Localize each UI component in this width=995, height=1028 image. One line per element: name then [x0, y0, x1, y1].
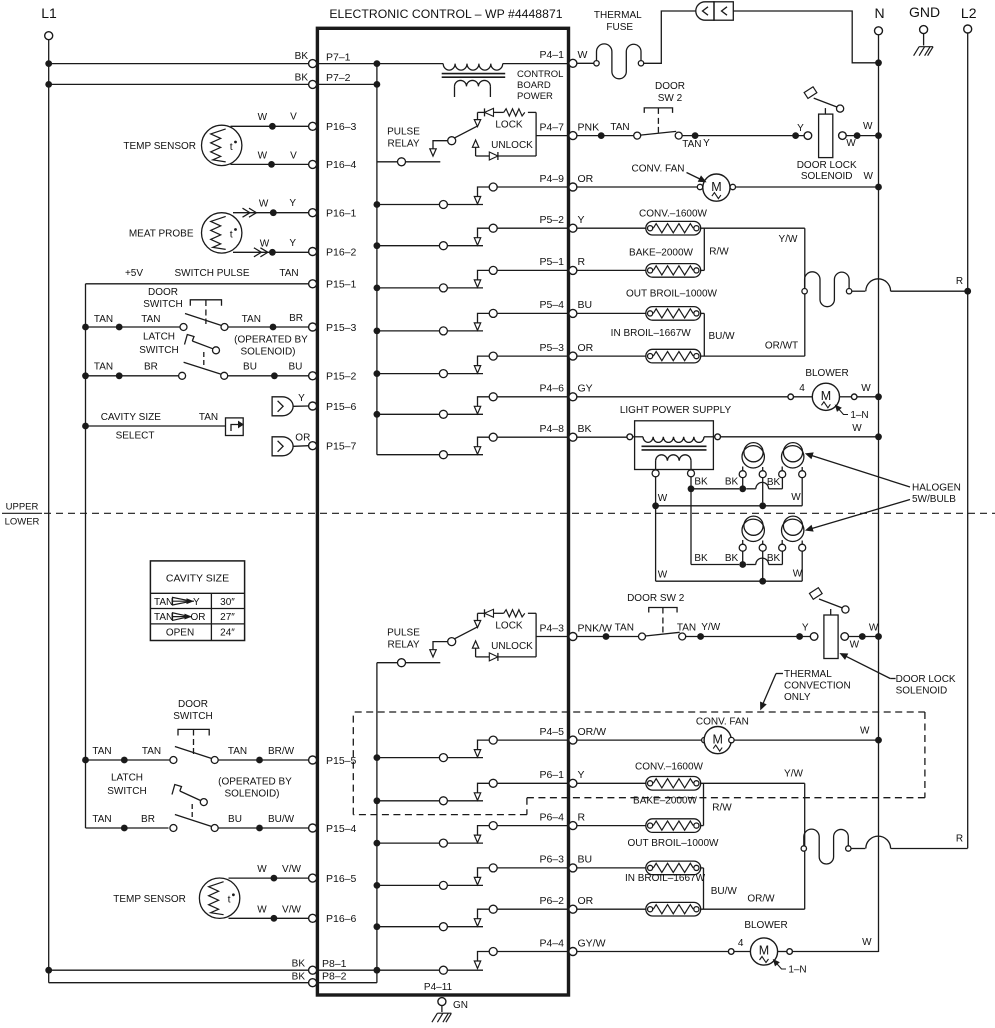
svg-text:27″: 27″ — [220, 612, 235, 623]
svg-text:OR/W: OR/W — [747, 894, 775, 905]
svg-text:t: t — [230, 228, 233, 240]
svg-text:GY: GY — [578, 383, 593, 395]
svg-text:HALOGEN: HALOGEN — [912, 483, 961, 494]
svg-text:Y: Y — [703, 138, 710, 149]
svg-text:POWER: POWER — [517, 91, 553, 102]
svg-text:(OPERATED BY: (OPERATED BY — [218, 777, 292, 788]
svg-text:W: W — [861, 383, 871, 394]
svg-text:BK: BK — [767, 553, 781, 564]
svg-text:TAN: TAN — [141, 314, 160, 325]
svg-text:TAN: TAN — [242, 314, 261, 325]
svg-text:P5–2: P5–2 — [539, 214, 564, 226]
svg-text:BK: BK — [767, 477, 781, 488]
svg-text:CONTROL: CONTROL — [517, 69, 563, 80]
svg-text:M: M — [711, 180, 721, 194]
svg-text:TAN: TAN — [94, 362, 113, 373]
svg-text:W: W — [257, 905, 267, 916]
svg-text:Y: Y — [578, 214, 585, 226]
svg-text:OR: OR — [578, 342, 594, 354]
svg-text:Y: Y — [298, 393, 305, 404]
svg-text:W: W — [793, 569, 803, 580]
svg-text:TEMP SENSOR: TEMP SENSOR — [113, 894, 186, 905]
svg-text:P16–4: P16–4 — [326, 159, 357, 171]
svg-text:BK: BK — [292, 959, 306, 970]
svg-text:W: W — [658, 570, 668, 581]
svg-text:P7–1: P7–1 — [326, 51, 351, 63]
svg-text:CAVITY SIZE: CAVITY SIZE — [101, 412, 162, 423]
svg-text:CONV.–1600W: CONV.–1600W — [639, 209, 708, 220]
svg-text:GN: GN — [453, 1000, 468, 1011]
svg-text:BR/W: BR/W — [268, 746, 295, 757]
svg-text:PULSE: PULSE — [387, 628, 420, 639]
svg-text:V/W: V/W — [282, 905, 301, 916]
svg-text:OR: OR — [191, 612, 206, 623]
svg-text:5W/BULB: 5W/BULB — [912, 494, 956, 505]
svg-text:TAN: TAN — [92, 814, 111, 825]
svg-text:Y: Y — [193, 597, 200, 608]
svg-text:R/W: R/W — [712, 803, 732, 814]
svg-text:W: W — [791, 492, 801, 503]
svg-text:24″: 24″ — [220, 628, 235, 639]
svg-text:P6–3: P6–3 — [539, 854, 564, 866]
svg-text:R: R — [578, 256, 586, 268]
svg-text:P16–6: P16–6 — [326, 913, 357, 925]
svg-text:ONLY: ONLY — [784, 692, 811, 703]
svg-text:R/W: R/W — [709, 247, 729, 258]
svg-text:P16–2: P16–2 — [326, 246, 357, 258]
svg-text:GND: GND — [909, 4, 940, 20]
svg-text:OR: OR — [578, 895, 594, 907]
svg-text:M: M — [712, 732, 722, 746]
svg-text:TAN: TAN — [610, 122, 629, 133]
svg-text:LOCK: LOCK — [495, 620, 523, 631]
svg-text:OR: OR — [578, 173, 594, 185]
svg-text:BU: BU — [243, 362, 257, 373]
svg-text:4: 4 — [799, 383, 805, 394]
svg-text:TAN: TAN — [279, 268, 298, 279]
svg-text:P8–2: P8–2 — [322, 971, 347, 983]
svg-text:M: M — [821, 389, 831, 403]
svg-text:P15–3: P15–3 — [326, 322, 357, 334]
svg-text:LATCH: LATCH — [111, 773, 143, 784]
svg-text:+5V: +5V — [125, 268, 143, 279]
svg-text:Y: Y — [578, 769, 585, 781]
svg-text:THERMAL: THERMAL — [784, 669, 832, 680]
svg-text:UPPER: UPPER — [6, 502, 39, 513]
svg-text:DOOR: DOOR — [148, 287, 178, 298]
svg-text:P4–5: P4–5 — [539, 726, 564, 738]
svg-text:BU: BU — [228, 814, 242, 825]
svg-text:LATCH: LATCH — [143, 332, 175, 343]
svg-text:BR: BR — [144, 362, 158, 373]
svg-text:BU: BU — [578, 854, 593, 866]
svg-text:N: N — [874, 5, 884, 21]
svg-text:W: W — [850, 640, 860, 651]
svg-text:LIGHT POWER SUPPLY: LIGHT POWER SUPPLY — [620, 405, 732, 416]
svg-text:W: W — [862, 937, 872, 948]
svg-text:TAN: TAN — [682, 139, 701, 150]
svg-text:TAN: TAN — [154, 612, 173, 623]
svg-text:(OPERATED BY: (OPERATED BY — [234, 335, 308, 346]
svg-text:P4–9: P4–9 — [539, 173, 564, 185]
svg-text:Y: Y — [797, 123, 804, 134]
svg-text:BK: BK — [578, 423, 592, 435]
svg-text:BR: BR — [289, 313, 303, 324]
svg-text:P4–4: P4–4 — [539, 937, 564, 949]
svg-text:Y: Y — [289, 198, 296, 209]
svg-text:DOOR: DOOR — [655, 81, 685, 92]
svg-text:t: t — [228, 894, 231, 906]
svg-text:BK: BK — [694, 553, 708, 564]
svg-text:IN BROIL–1667W: IN BROIL–1667W — [625, 873, 706, 884]
svg-text:t: t — [230, 141, 233, 153]
svg-text:Y/W: Y/W — [784, 769, 803, 780]
svg-text:OR/WT: OR/WT — [765, 341, 798, 352]
svg-text:SWITCH PULSE: SWITCH PULSE — [174, 268, 249, 279]
svg-text:LOWER: LOWER — [5, 517, 40, 528]
svg-text:RELAY: RELAY — [387, 640, 419, 651]
svg-text:P4–7: P4–7 — [539, 121, 564, 133]
svg-text:W: W — [860, 726, 870, 737]
svg-text:P15–1: P15–1 — [326, 279, 357, 291]
svg-text:CONV.–1600W: CONV.–1600W — [635, 762, 704, 773]
svg-text:P4–6: P4–6 — [539, 383, 564, 395]
svg-text:L1: L1 — [41, 5, 57, 21]
svg-text:BLOWER: BLOWER — [744, 920, 787, 931]
svg-text:1–N: 1–N — [788, 965, 806, 976]
svg-text:P15–4: P15–4 — [326, 823, 357, 835]
svg-text:TAN: TAN — [199, 412, 218, 423]
svg-text:TAN: TAN — [615, 623, 634, 634]
svg-text:V: V — [290, 151, 297, 162]
svg-text:ELECTRONIC CONTROL – WP #44488: ELECTRONIC CONTROL – WP #4448871 — [329, 7, 562, 21]
svg-text:BK: BK — [725, 553, 739, 564]
svg-text:DOOR: DOOR — [178, 699, 208, 710]
svg-text:PULSE: PULSE — [387, 127, 420, 138]
svg-text:LOCK: LOCK — [495, 119, 523, 130]
svg-text:BK: BK — [295, 73, 309, 84]
svg-text:P5–4: P5–4 — [539, 299, 564, 311]
svg-text:Y: Y — [802, 623, 809, 634]
svg-text:UNLOCK: UNLOCK — [491, 641, 533, 652]
svg-text:BU/W: BU/W — [268, 814, 295, 825]
svg-text:W: W — [846, 138, 856, 149]
svg-text:W: W — [658, 493, 668, 504]
svg-text:W: W — [258, 112, 268, 123]
svg-text:DOOR LOCK: DOOR LOCK — [896, 674, 956, 685]
svg-text:R: R — [956, 834, 963, 845]
svg-text:GY/W: GY/W — [578, 937, 606, 949]
svg-text:30″: 30″ — [220, 597, 235, 608]
svg-text:OUT BROIL–1000W: OUT BROIL–1000W — [628, 838, 720, 849]
svg-text:PNK/W: PNK/W — [578, 622, 613, 634]
svg-text:FUSE: FUSE — [606, 22, 633, 33]
svg-text:P4–1: P4–1 — [539, 49, 564, 61]
svg-text:W: W — [863, 171, 873, 182]
svg-text:MEAT PROBE: MEAT PROBE — [129, 229, 194, 240]
svg-text:CAVITY SIZE: CAVITY SIZE — [166, 573, 229, 585]
svg-text:UNLOCK: UNLOCK — [491, 140, 533, 151]
svg-text:BU: BU — [578, 299, 593, 311]
svg-text:BAKE–2000W: BAKE–2000W — [629, 248, 693, 259]
svg-text:P7–2: P7–2 — [326, 72, 351, 84]
svg-text:IN BROIL–1667W: IN BROIL–1667W — [611, 328, 692, 339]
svg-text:BOARD: BOARD — [517, 80, 551, 91]
svg-text:OR/W: OR/W — [578, 726, 607, 738]
svg-text:SWITCH: SWITCH — [107, 786, 146, 797]
svg-text:THERMAL: THERMAL — [594, 10, 642, 21]
svg-text:SWITCH: SWITCH — [139, 345, 178, 356]
svg-text:W: W — [259, 199, 269, 210]
svg-text:W: W — [863, 121, 873, 132]
svg-text:R: R — [956, 276, 963, 287]
svg-text:P5–3: P5–3 — [539, 342, 564, 354]
svg-text:W: W — [869, 623, 879, 634]
svg-text:TAN: TAN — [228, 746, 247, 757]
svg-text:W: W — [258, 151, 268, 162]
svg-text:4: 4 — [738, 938, 744, 949]
svg-text:P8–1: P8–1 — [322, 958, 347, 970]
svg-text:1–N: 1–N — [850, 410, 868, 421]
svg-text:CONVECTION: CONVECTION — [784, 681, 851, 692]
svg-text:P15–6: P15–6 — [326, 401, 357, 413]
svg-text:W: W — [257, 864, 267, 875]
svg-text:OR: OR — [295, 433, 310, 444]
svg-text:W: W — [852, 423, 862, 434]
svg-text:SOLENOID): SOLENOID) — [224, 789, 279, 800]
svg-text:BAKE–2000W: BAKE–2000W — [633, 796, 697, 807]
svg-text:BU: BU — [288, 362, 302, 373]
svg-text:DOOR SW 2: DOOR SW 2 — [627, 593, 685, 604]
svg-text:CONV. FAN: CONV. FAN — [696, 717, 749, 728]
svg-text:SW 2: SW 2 — [658, 93, 683, 104]
svg-text:P6–1: P6–1 — [539, 769, 564, 781]
svg-text:P15–2: P15–2 — [326, 371, 357, 383]
svg-text:P16–5: P16–5 — [326, 873, 357, 885]
svg-text:BR: BR — [141, 814, 155, 825]
svg-text:P4–3: P4–3 — [539, 622, 564, 634]
svg-text:TEMP SENSOR: TEMP SENSOR — [123, 141, 196, 152]
svg-text:V/W: V/W — [282, 864, 301, 875]
svg-text:BU/W: BU/W — [708, 331, 735, 342]
svg-text:SOLENOID: SOLENOID — [801, 171, 853, 182]
svg-text:R: R — [578, 811, 586, 823]
svg-text:Y/W: Y/W — [779, 234, 798, 245]
svg-text:TAN: TAN — [142, 746, 161, 757]
svg-text:Y: Y — [289, 238, 296, 249]
svg-text:V: V — [290, 112, 297, 123]
svg-text:SWITCH: SWITCH — [143, 299, 182, 310]
svg-text:Y/W: Y/W — [701, 622, 720, 633]
svg-text:P4–8: P4–8 — [539, 423, 564, 435]
svg-text:SELECT: SELECT — [116, 431, 155, 442]
svg-text:P4–11: P4–11 — [424, 982, 453, 993]
svg-text:RELAY: RELAY — [387, 139, 419, 150]
svg-text:M: M — [759, 944, 769, 958]
svg-text:P16–3: P16–3 — [326, 121, 357, 133]
svg-text:P15–7: P15–7 — [326, 441, 357, 453]
svg-text:W: W — [578, 49, 588, 61]
svg-text:BU/W: BU/W — [711, 886, 738, 897]
svg-text:CONV. FAN: CONV. FAN — [632, 164, 685, 175]
svg-text:TAN: TAN — [154, 597, 173, 608]
svg-text:OUT BROIL–1000W: OUT BROIL–1000W — [626, 289, 718, 300]
svg-text:DOOR LOCK: DOOR LOCK — [797, 160, 857, 171]
svg-text:W: W — [260, 239, 270, 250]
svg-text:BK: BK — [725, 477, 739, 488]
svg-text:SWITCH: SWITCH — [173, 711, 212, 722]
svg-text:PNK: PNK — [578, 121, 600, 133]
svg-text:SOLENOID): SOLENOID) — [240, 347, 295, 358]
svg-text:TAN: TAN — [92, 746, 111, 757]
svg-text:BK: BK — [292, 972, 306, 983]
svg-text:TAN: TAN — [94, 314, 113, 325]
svg-text:P6–4: P6–4 — [539, 811, 564, 823]
svg-text:OPEN: OPEN — [166, 628, 194, 639]
svg-text:P5–1: P5–1 — [539, 256, 564, 268]
svg-text:SOLENOID: SOLENOID — [896, 686, 948, 697]
svg-text:BLOWER: BLOWER — [805, 368, 848, 379]
svg-text:P6–2: P6–2 — [539, 895, 564, 907]
svg-text:TAN: TAN — [677, 623, 696, 634]
svg-text:BK: BK — [694, 477, 708, 488]
svg-text:L2: L2 — [961, 5, 977, 21]
svg-text:BK: BK — [295, 51, 309, 62]
svg-text:P15–5: P15–5 — [326, 755, 357, 767]
svg-text:P16–1: P16–1 — [326, 208, 357, 220]
